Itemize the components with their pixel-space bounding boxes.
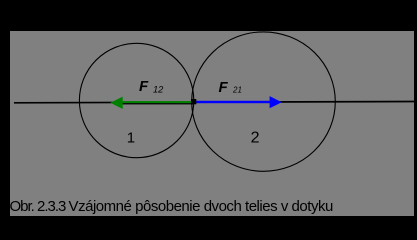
wire: horizontal line of action bbox=[14, 102, 414, 103]
contact point dot bbox=[191, 99, 196, 104]
svg-text:Obr. 2.3.3 Vzájomné pôsobenie: Obr. 2.3.3 Vzájomné pôsobenie dvoch teli… bbox=[10, 198, 333, 215]
svg-text:F: F bbox=[219, 79, 229, 96]
force arrow F21 (blue, pointing right) bbox=[193, 96, 282, 108]
svg-text:21: 21 bbox=[232, 86, 242, 95]
body circle 1 bbox=[79, 43, 193, 157]
svg-text:F: F bbox=[139, 78, 149, 95]
gray figure panel bbox=[10, 31, 414, 216]
svg-text:1: 1 bbox=[127, 130, 135, 147]
body circle 2 bbox=[192, 32, 336, 171]
force arrow F12 (green, pointing left) bbox=[110, 97, 194, 109]
svg-text:12: 12 bbox=[153, 85, 164, 95]
label F12 bbox=[139, 78, 164, 95]
label F21 bbox=[219, 79, 242, 96]
svg-text:2: 2 bbox=[251, 130, 260, 147]
